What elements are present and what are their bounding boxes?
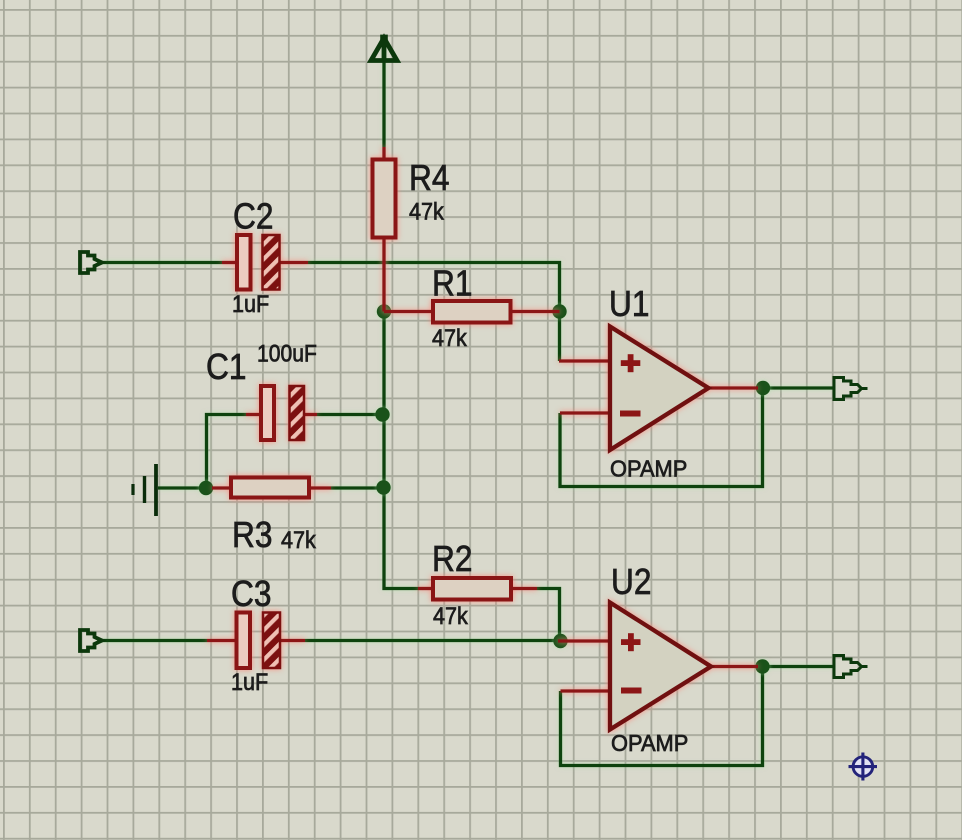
svg-text:1uF: 1uF	[232, 290, 269, 317]
svg-text:C2: C2	[233, 197, 273, 237]
svg-text:47k: 47k	[409, 197, 444, 224]
svg-text:R2: R2	[432, 539, 472, 579]
svg-text:1uF: 1uF	[231, 668, 268, 695]
svg-text:R1: R1	[432, 264, 472, 304]
svg-text:R3: R3	[232, 515, 272, 555]
svg-text:OPAMP: OPAMP	[611, 729, 688, 756]
svg-text:47k: 47k	[433, 602, 468, 629]
svg-text:C3: C3	[231, 574, 271, 614]
svg-text:U2: U2	[611, 562, 651, 602]
svg-text:C1: C1	[206, 347, 246, 387]
svg-text:100uF: 100uF	[257, 340, 317, 367]
svg-text:47k: 47k	[281, 526, 316, 553]
svg-text:OPAMP: OPAMP	[610, 455, 687, 482]
svg-text:47k: 47k	[432, 324, 467, 351]
svg-text:U1: U1	[609, 284, 649, 324]
svg-text:R4: R4	[409, 158, 449, 198]
